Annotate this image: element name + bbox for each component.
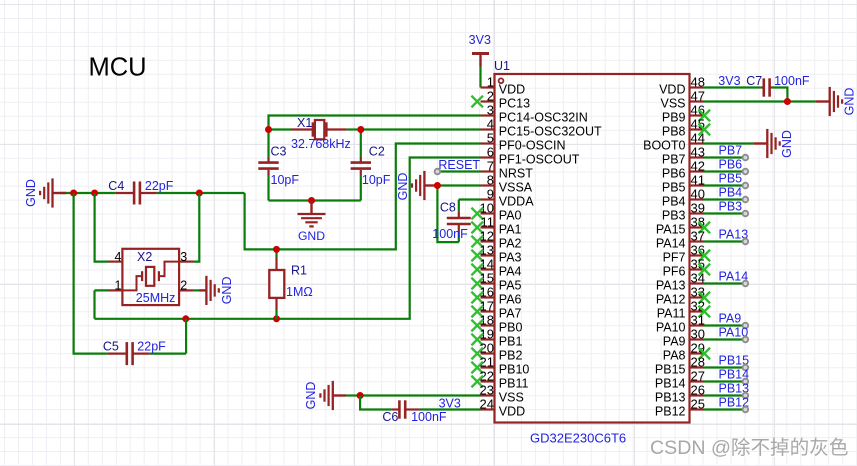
svg-text:PA12: PA12	[656, 293, 686, 307]
pin 17 PA7	[471, 299, 521, 321]
svg-text:CSDN @除不掉的灰色: CSDN @除不掉的灰色	[650, 437, 848, 459]
svg-text:VDD: VDD	[659, 83, 685, 97]
node GND-X2pin4 junction	[91, 190, 98, 197]
ground GND (left)	[40, 178, 66, 207]
svg-text:PF1-OSCOUT: PF1-OSCOUT	[499, 153, 580, 167]
svg-text:PB4: PB4	[719, 186, 743, 200]
svg-text:PA11: PA11	[657, 307, 686, 321]
node PC14 junction	[265, 126, 272, 133]
wire net PB15	[704, 366, 745, 368]
capacitor C7	[761, 78, 773, 96]
capacitor C5	[107, 342, 149, 365]
wire PC15 net: pin 4 to crystal right	[361, 128, 481, 130]
svg-text:48: 48	[691, 75, 705, 90]
wire GND net: pin 47	[704, 100, 816, 102]
svg-text:PB15: PB15	[655, 363, 686, 377]
svg-text:PA9: PA9	[719, 312, 742, 326]
node R1 bottom junction	[273, 315, 280, 322]
wire net PA9	[704, 324, 745, 326]
wire X2 pin3 branch	[193, 193, 199, 262]
ground GND (VSSA)	[412, 171, 437, 200]
pin 6 PF1-OSCOUT	[481, 145, 580, 167]
svg-text:39: 39	[691, 201, 705, 216]
svg-text:C5: C5	[103, 340, 119, 354]
wire 3V3 net: to pin 24	[419, 408, 481, 410]
pin 47 VSS	[660, 89, 704, 111]
svg-text:PA7: PA7	[499, 307, 522, 321]
pin 2 PC13	[471, 89, 530, 111]
node PB7 open end	[743, 155, 749, 161]
svg-text:VDD: VDD	[499, 83, 525, 97]
node PB15 open end	[743, 365, 749, 371]
node VSS junction	[357, 392, 364, 399]
svg-text:4: 4	[487, 117, 494, 132]
svg-text:PC14-OSC32IN: PC14-OSC32IN	[499, 111, 588, 125]
svg-text:GND: GND	[780, 130, 794, 158]
svg-text:VDDA: VDDA	[499, 195, 534, 209]
capacitor C8	[447, 200, 471, 243]
svg-text:3: 3	[487, 103, 494, 118]
wire C4 to corner	[157, 192, 245, 194]
wire C8 bottom branch	[437, 186, 458, 243]
svg-text:10pF: 10pF	[362, 173, 391, 187]
svg-text:GND: GND	[220, 277, 234, 305]
node C4-X2pin3 junction	[196, 190, 203, 197]
svg-text:40: 40	[691, 187, 705, 202]
svg-text:10pF: 10pF	[271, 173, 300, 187]
svg-text:8: 8	[487, 173, 494, 188]
ground GND below X1	[298, 201, 326, 227]
pin 9 VDDA	[481, 187, 535, 209]
svg-text:PB7: PB7	[719, 144, 743, 158]
pin 3 PC14-OSC32IN	[481, 103, 588, 125]
svg-text:BOOT0: BOOT0	[643, 139, 685, 153]
node C5 junction	[182, 315, 189, 322]
wire VDDA net: pin 9	[459, 198, 481, 200]
svg-text:100nF: 100nF	[411, 410, 447, 424]
wire 3V3 to pin 1	[479, 66, 481, 88]
svg-text:VSSA: VSSA	[499, 181, 533, 195]
pin 8 VSSA	[481, 173, 533, 195]
svg-text:PA13: PA13	[656, 279, 686, 293]
node PB6 open end	[743, 169, 749, 175]
node RESET open end	[435, 169, 441, 175]
wire PC14 net: pin 3 to crystal left	[269, 116, 481, 130]
svg-text:PA3: PA3	[499, 251, 522, 265]
wire X1 bottom	[269, 199, 361, 201]
svg-text:41: 41	[691, 173, 705, 188]
svg-text:GD32E230C6T6: GD32E230C6T6	[530, 431, 626, 446]
wire net PB13	[704, 394, 745, 396]
wire C6 branch	[360, 396, 391, 410]
ground GND (X2 pin2)	[200, 276, 219, 305]
svg-text:C2: C2	[369, 145, 385, 159]
wire net PB12	[704, 408, 745, 410]
pin 38 PA15	[656, 215, 710, 237]
node PA9 open end	[743, 323, 749, 329]
svg-text:PB7: PB7	[662, 153, 686, 167]
svg-text:1: 1	[115, 279, 122, 293]
ground GND (BOOT0)	[753, 129, 779, 158]
crystal X1	[291, 120, 347, 139]
svg-text:NRST: NRST	[499, 167, 533, 181]
pin 21 PB10	[471, 355, 529, 377]
svg-text:C4: C4	[108, 179, 124, 193]
svg-text:PB14: PB14	[655, 377, 686, 391]
capacitor C4	[115, 182, 156, 205]
node PB13 open end	[743, 393, 749, 399]
node GND-C5 junction	[70, 190, 77, 197]
svg-text:PA9: PA9	[663, 335, 686, 349]
svg-text:3V3: 3V3	[718, 74, 740, 88]
wire net PB4	[704, 198, 745, 200]
wire GND to C4	[60, 192, 115, 194]
svg-text:PB8: PB8	[662, 125, 686, 139]
wire RESET to pin 7	[437, 170, 480, 172]
wire X1 right segment	[347, 128, 361, 130]
svg-text:31: 31	[691, 313, 705, 328]
pin 14 PA4	[471, 257, 521, 279]
pin 33 PA12	[656, 285, 710, 307]
svg-text:37: 37	[691, 229, 705, 244]
svg-text:C6: C6	[382, 410, 398, 424]
op-amp U1 body GD32E230C6T6	[495, 74, 690, 423]
svg-text:2: 2	[180, 279, 187, 293]
svg-text:1: 1	[487, 75, 494, 90]
svg-text:GND: GND	[396, 173, 410, 201]
wire net PB7	[704, 156, 745, 158]
svg-text:C3: C3	[271, 145, 287, 159]
pin 29 PA8	[663, 341, 710, 363]
node PB5 open end	[743, 183, 749, 189]
pin 18 PB0	[471, 313, 522, 335]
svg-text:25: 25	[691, 397, 705, 412]
svg-text:4: 4	[115, 250, 122, 264]
svg-text:24: 24	[480, 397, 494, 412]
node PB14 open end	[743, 379, 749, 385]
svg-text:VDD: VDD	[499, 405, 525, 419]
svg-text:PA4: PA4	[499, 265, 522, 279]
svg-text:PB11: PB11	[499, 377, 529, 391]
svg-text:X1: X1	[297, 116, 312, 130]
node PB4 open end	[743, 197, 749, 203]
pin 24 VDD	[480, 397, 526, 419]
svg-text:22pF: 22pF	[137, 340, 166, 354]
svg-text:GND: GND	[843, 88, 857, 116]
wire net PB14	[704, 380, 745, 382]
pin 41 PB5	[662, 173, 705, 195]
svg-text:C8: C8	[440, 201, 456, 215]
pin 30 PA9	[663, 327, 705, 349]
wire VSS net: pin 23	[360, 394, 480, 396]
pin 13 PA3	[471, 243, 521, 265]
svg-text:X2: X2	[137, 250, 152, 264]
pin 39 PB3	[662, 201, 705, 223]
pin 28 PB15	[655, 355, 705, 377]
pin 37 PA14	[656, 229, 705, 251]
svg-text:GND: GND	[304, 382, 318, 410]
node PA13 open end	[743, 239, 749, 245]
svg-text:PA1: PA1	[499, 223, 522, 237]
capacitor C6	[391, 400, 419, 418]
svg-text:C7: C7	[746, 74, 762, 88]
pin 10 PA0	[471, 201, 521, 223]
pin 1 indicator circle	[499, 78, 504, 83]
wire net PB6	[704, 170, 745, 172]
wire BOOT0 to ground	[704, 142, 754, 144]
pin 31 PA10	[656, 313, 705, 335]
ground GND (pin 23)	[320, 381, 360, 410]
node PA10 open end	[743, 337, 749, 343]
node PB12 open end	[743, 407, 749, 413]
node PB3 open end	[743, 211, 749, 217]
wire C7 to VSS junction	[773, 88, 788, 102]
pin 16 PA6	[471, 285, 521, 307]
svg-text:PB12: PB12	[655, 405, 686, 419]
svg-text:32.768kHz: 32.768kHz	[291, 137, 351, 151]
wire net PA13	[704, 240, 745, 242]
wire 3V3 net: pin 48 to C7	[704, 86, 761, 88]
svg-text:U1: U1	[494, 59, 510, 73]
svg-text:PB10: PB10	[499, 363, 530, 377]
capacitor C5 branch wire	[74, 193, 108, 354]
svg-text:34: 34	[691, 271, 705, 286]
svg-text:PF6: PF6	[663, 265, 686, 279]
pin 1 VDD	[481, 75, 526, 97]
svg-text:22pF: 22pF	[145, 179, 174, 193]
wire C5 to PF1 net	[149, 319, 186, 354]
pin 27 PB14	[655, 369, 705, 391]
svg-text:PA8: PA8	[663, 349, 686, 363]
svg-text:3V3: 3V3	[439, 396, 461, 410]
svg-text:28: 28	[691, 355, 705, 370]
wire VSSA net: pin 8	[437, 184, 480, 186]
pin 42 PB6	[662, 159, 705, 181]
pin 20 PB2	[471, 341, 522, 363]
pin 19 PB1	[471, 327, 522, 349]
svg-text:3V3: 3V3	[469, 33, 491, 47]
node C7-VSS junction	[784, 98, 791, 105]
capacitor C3	[258, 130, 278, 201]
svg-text:2: 2	[487, 89, 494, 104]
crystal X2	[109, 249, 194, 305]
pin 43 PB7	[662, 145, 705, 167]
power port 3V3 (top)	[472, 54, 489, 67]
svg-text:26: 26	[691, 383, 705, 398]
svg-text:PB1: PB1	[499, 335, 523, 349]
pin 40 PB4	[662, 187, 705, 209]
svg-text:PB0: PB0	[499, 321, 523, 335]
capacitor C2	[351, 130, 371, 201]
pin 4 PC15-OSC32OUT	[481, 117, 602, 139]
wire net PA14	[704, 282, 745, 284]
wire X1 left segment	[269, 128, 292, 130]
svg-text:6: 6	[487, 145, 494, 160]
svg-text:PC15-OSC32OUT: PC15-OSC32OUT	[499, 125, 602, 139]
svg-text:PB6: PB6	[662, 167, 686, 181]
svg-text:3: 3	[180, 250, 187, 264]
wire net PA10	[704, 338, 745, 340]
svg-text:PA5: PA5	[499, 279, 522, 293]
pin 46 PB9	[662, 103, 710, 125]
node PA14 open end	[743, 281, 749, 287]
svg-text:PA6: PA6	[499, 293, 522, 307]
svg-text:PB13: PB13	[655, 391, 686, 405]
svg-text:23: 23	[480, 383, 494, 398]
svg-text:PA15: PA15	[656, 223, 686, 237]
wire net PB5	[704, 184, 745, 186]
node R1 top junction	[273, 246, 280, 253]
svg-text:R1: R1	[291, 263, 307, 277]
svg-text:5: 5	[487, 131, 494, 146]
svg-text:PF7: PF7	[663, 251, 686, 265]
svg-text:43: 43	[691, 145, 705, 160]
node PC15 junction	[357, 126, 364, 133]
wire PF0 net: pin 5 to R1 top and C4	[245, 144, 481, 250]
resistor R1	[269, 249, 284, 318]
pin 32 PA11	[657, 299, 710, 321]
pin 25 PB12	[655, 397, 705, 419]
svg-text:47: 47	[691, 89, 705, 104]
pin 12 PA2	[471, 229, 521, 251]
pin 48 VDD	[659, 75, 705, 97]
svg-text:RESET: RESET	[438, 158, 480, 172]
pin 35 PF6	[663, 257, 711, 279]
svg-text:GND: GND	[298, 229, 325, 243]
pin 23 VSS	[480, 383, 524, 405]
svg-text:42: 42	[691, 159, 705, 174]
svg-text:27: 27	[691, 369, 705, 384]
svg-text:PB3: PB3	[662, 209, 686, 223]
pin 44 BOOT0	[643, 131, 705, 153]
svg-text:9: 9	[487, 187, 494, 202]
svg-text:7: 7	[487, 159, 494, 174]
svg-text:PA0: PA0	[499, 209, 522, 223]
wire PF1 net: pin 6 down and bottom run	[95, 158, 481, 319]
wire X2 pin1 branch	[95, 290, 109, 318]
svg-text:PB6: PB6	[719, 158, 743, 172]
svg-text:PB3: PB3	[719, 200, 743, 214]
svg-text:PF0-OSCIN: PF0-OSCIN	[499, 139, 566, 153]
svg-text:100nF: 100nF	[432, 227, 468, 241]
svg-text:25MHz: 25MHz	[136, 291, 176, 305]
pin 22 PB11	[471, 369, 528, 391]
svg-text:PA14: PA14	[656, 237, 686, 251]
svg-text:PB5: PB5	[662, 181, 686, 195]
svg-text:MCU: MCU	[89, 54, 147, 82]
svg-text:PB4: PB4	[662, 195, 686, 209]
svg-text:GND: GND	[24, 179, 38, 207]
svg-text:30: 30	[691, 327, 705, 342]
wire X2 pin4 branch	[95, 193, 109, 262]
pin 7 NRST	[481, 159, 534, 181]
pin 26 PB13	[655, 383, 705, 405]
wire X2 pin2 to ground	[193, 289, 200, 291]
svg-text:100nF: 100nF	[774, 74, 810, 88]
ground GND (pin 47)	[815, 87, 842, 116]
svg-text:PB2: PB2	[499, 349, 523, 363]
svg-text:1MΩ: 1MΩ	[286, 285, 313, 299]
pin 11 PA1	[471, 215, 521, 237]
pin 45 PB8	[662, 117, 710, 139]
svg-text:PB5: PB5	[719, 172, 743, 186]
svg-text:VSS: VSS	[660, 97, 685, 111]
svg-text:PB9: PB9	[662, 111, 686, 125]
node X1 bottom junction	[308, 197, 315, 204]
pin 5 PF0-OSCIN	[481, 131, 566, 153]
svg-text:PC13: PC13	[499, 97, 530, 111]
svg-text:PA10: PA10	[656, 321, 686, 335]
pin 15 PA5	[471, 271, 521, 293]
wire net PB3	[704, 212, 745, 214]
svg-text:VSS: VSS	[499, 391, 524, 405]
pin 34 PA13	[656, 271, 705, 293]
node VSSA junction	[434, 182, 441, 189]
pin 36 PF7	[663, 243, 711, 265]
svg-text:44: 44	[691, 131, 705, 146]
svg-text:PA2: PA2	[499, 237, 522, 251]
